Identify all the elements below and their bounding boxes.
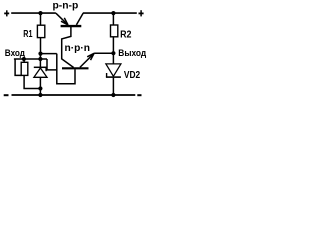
svg-text:VD2: VD2 (124, 70, 141, 81)
node VD2 bottom (111, 93, 115, 97)
zener VD2 triangle (106, 64, 121, 76)
wire top rail right (83, 12, 137, 14)
wire B corner to base vertical (47, 59, 57, 70)
resistor R1 (37, 25, 44, 37)
svg-text:R1: R1 (23, 29, 33, 40)
plus terminal output (139, 10, 144, 16)
node R2 top junction (111, 11, 115, 15)
transistor VT1 collector (76, 13, 83, 25)
wire R1 bottom lead (40, 38, 42, 54)
svg-text:Выход: Выход (118, 48, 146, 58)
plus terminal input (4, 10, 9, 16)
zener VD1 tick (45, 67, 47, 71)
node VD1 bottom (38, 93, 42, 97)
wire R3 top lead (23, 59, 25, 62)
node R3/VD1 join (38, 86, 42, 90)
wire B horizontal (14, 58, 47, 60)
node R1 top junction (38, 11, 42, 15)
svg-text:R2: R2 (120, 29, 132, 40)
wire R2 stem (112, 13, 114, 25)
wire R2 bottom lead (112, 37, 114, 53)
node dot1 (38, 52, 42, 56)
wire VD1 anode lead (39, 77, 41, 95)
wire VD2 anode lead (112, 78, 114, 95)
wire VT2 base lead down-left-up (57, 54, 75, 84)
resistor R2 (111, 25, 118, 37)
wire VT1 base to VT2 collector zigzag (62, 27, 74, 68)
zener VD2 cathode bar (106, 76, 121, 78)
wire A node to base (41, 53, 57, 55)
node dot2 (38, 57, 42, 61)
svg-text:p-n-p: p-n-p (53, 0, 79, 11)
wire top rail left (11, 12, 56, 14)
minus terminal output (137, 94, 141, 96)
svg-text:Вход: Вход (5, 48, 26, 58)
wire R1 stem (40, 13, 42, 25)
wire VD1 cathode stem (39, 54, 41, 68)
svg-text:n·p·n: n·p·n (65, 43, 91, 54)
resistor R3 (21, 62, 28, 75)
wire C emitter to output node (94, 52, 113, 54)
node R3 top (22, 57, 26, 61)
zener VD1 triangle (34, 68, 47, 77)
wire left hook (15, 59, 21, 75)
transistor VT1 base bar (61, 25, 82, 27)
node output feedback (111, 51, 115, 55)
wire bottom rail (12, 94, 136, 96)
zener VD2 tick (106, 73, 108, 77)
transistor VT2 base bar (62, 67, 89, 69)
transistor VT2 emitter with arrow (80, 53, 94, 67)
wire VD2 top stem (112, 53, 114, 64)
wire R3 bottom lead (24, 75, 40, 88)
minus terminal input (4, 94, 9, 96)
zener VD1 cathode bar (34, 66, 47, 68)
transistor VT1 emitter (56, 13, 68, 25)
